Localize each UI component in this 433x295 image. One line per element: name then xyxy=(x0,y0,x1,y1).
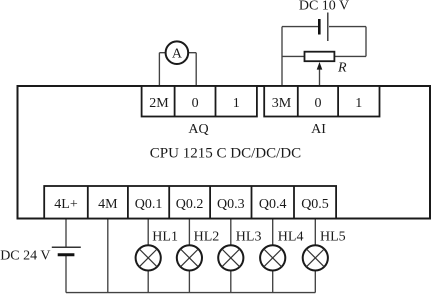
svg-text:Q0.3: Q0.3 xyxy=(217,197,245,212)
svg-text:Q0.2: Q0.2 xyxy=(176,197,204,212)
svg-text:AI: AI xyxy=(311,122,326,137)
svg-text:4L+: 4L+ xyxy=(54,197,78,212)
svg-text:1: 1 xyxy=(355,96,362,111)
svg-text:HL2: HL2 xyxy=(194,230,220,245)
svg-text:Q0.4: Q0.4 xyxy=(259,197,287,212)
svg-text:0: 0 xyxy=(192,96,199,111)
svg-text:Q0.1: Q0.1 xyxy=(135,197,163,212)
svg-text:4M: 4M xyxy=(98,197,118,212)
svg-text:Q0.5: Q0.5 xyxy=(301,197,329,212)
svg-text:HL3: HL3 xyxy=(236,230,262,245)
svg-text:0: 0 xyxy=(315,96,322,111)
svg-text:HL1: HL1 xyxy=(152,230,178,245)
svg-text:CPU 1215 C DC/DC/DC: CPU 1215 C DC/DC/DC xyxy=(150,146,301,162)
svg-text:2M: 2M xyxy=(149,96,169,111)
svg-text:3M: 3M xyxy=(272,96,292,111)
svg-text:AQ: AQ xyxy=(188,122,208,137)
svg-text:HL4: HL4 xyxy=(278,230,304,245)
svg-text:A: A xyxy=(172,46,183,61)
svg-text:R: R xyxy=(337,60,347,75)
svg-text:HL5: HL5 xyxy=(320,230,346,245)
svg-text:DC 24 V: DC 24 V xyxy=(0,248,50,263)
svg-text:1: 1 xyxy=(233,96,240,111)
svg-text:DC 10 V: DC 10 V xyxy=(299,0,349,14)
